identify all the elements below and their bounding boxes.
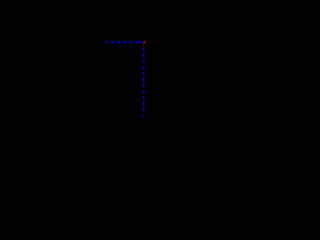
vertical dashed guide line [143, 48, 145, 117]
horizontal dashed guide line [105, 41, 142, 43]
red data point marker [143, 42, 145, 45]
